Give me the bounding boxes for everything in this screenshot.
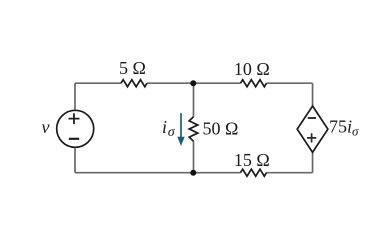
resistor 50ohm <box>189 117 198 141</box>
label 50 ohm <box>203 119 239 139</box>
label i_sigma <box>162 117 176 140</box>
svg-text:15 Ω: 15 Ω <box>234 150 270 170</box>
dependent source 75 i_sigma <box>297 106 328 152</box>
node B (bottom) <box>190 170 196 176</box>
wire top-middle horizontal <box>147 82 241 84</box>
wire middle branch lower <box>193 141 195 173</box>
wire top-right horizontal <box>267 82 313 84</box>
resistor 10ohm <box>241 80 267 87</box>
voltage source v <box>57 110 94 147</box>
svg-text:5 Ω: 5 Ω <box>119 58 146 78</box>
wire bottom-right horizontal <box>267 172 313 174</box>
wire left branch lower <box>74 148 76 173</box>
resistor 5ohm <box>121 80 147 87</box>
label 15 ohm <box>234 150 270 170</box>
label 75 i_sigma <box>329 116 359 138</box>
label 5 ohm <box>119 58 146 78</box>
wire right branch upper <box>312 83 314 106</box>
svg-text:v: v <box>42 117 50 137</box>
current arrow i_sigma <box>177 113 184 146</box>
svg-text:10 Ω: 10 Ω <box>234 59 270 79</box>
wire left branch upper <box>74 83 76 109</box>
wire top-left horizontal <box>75 82 121 84</box>
wire bottom-left horizontal <box>75 172 241 174</box>
label 10 ohm <box>234 59 270 79</box>
wire right branch lower <box>312 152 314 172</box>
node A (top) <box>190 80 196 86</box>
svg-text:iσ: iσ <box>162 117 176 140</box>
label v <box>42 117 50 137</box>
svg-text:75iσ: 75iσ <box>329 116 359 138</box>
svg-text:50 Ω: 50 Ω <box>203 119 239 139</box>
resistor 15ohm <box>241 169 267 176</box>
wire middle branch upper <box>193 83 195 117</box>
